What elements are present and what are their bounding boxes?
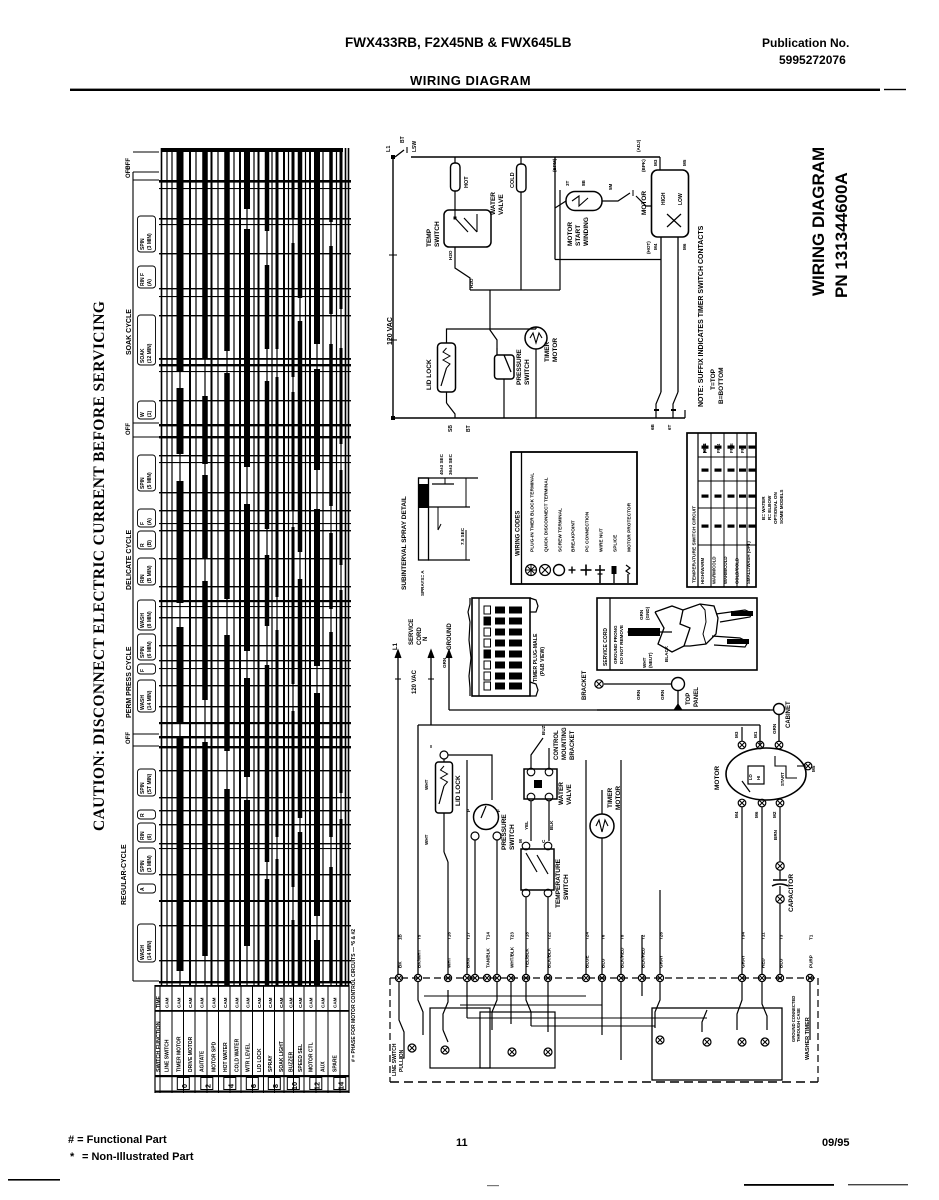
svg-text:BT: BT bbox=[466, 425, 472, 432]
svg-text:BRN: BRN bbox=[466, 957, 471, 968]
svg-text:CONTROL: CONTROL bbox=[554, 730, 560, 760]
schematic 1: start winding leads bbox=[555, 201, 566, 208]
svg-text:BLK: BLK bbox=[549, 820, 554, 830]
schematic 2: long feed rails bbox=[585, 760, 587, 974]
svg-text:SPEED SEL: SPEED SEL bbox=[298, 1044, 304, 1072]
svg-text:T6: T6 bbox=[601, 934, 606, 940]
svg-text:W: W bbox=[140, 412, 146, 417]
svg-text:T26: T26 bbox=[659, 932, 664, 940]
svg-text:COLD/COLD: COLD/COLD bbox=[735, 558, 740, 584]
svg-text:CAM: CAM bbox=[279, 997, 284, 1008]
svg-text:(HOT): (HOT) bbox=[646, 241, 651, 254]
svg-text:LSW: LSW bbox=[412, 141, 418, 152]
schematic 1: lid lock box bbox=[438, 343, 456, 392]
plug detail box frame bbox=[597, 598, 757, 670]
svg-text:CAM: CAM bbox=[223, 997, 228, 1008]
schematic 2: washer timer dashed box sides/bottom bbox=[389, 978, 391, 1082]
svg-text:LID LOCK: LID LOCK bbox=[426, 359, 433, 390]
svg-text:R= ELBOW: R= ELBOW bbox=[767, 495, 772, 520]
svg-text:WHT: WHT bbox=[447, 957, 452, 968]
spray detail bar bbox=[419, 478, 429, 560]
svg-text:WINDING: WINDING bbox=[583, 217, 590, 246]
svg-text:HI: HI bbox=[756, 776, 761, 780]
svg-text:WTR LEVEL: WTR LEVEL bbox=[246, 1043, 252, 1072]
svg-text:T14: T14 bbox=[486, 932, 491, 940]
svg-text:PRESSURE: PRESSURE bbox=[501, 814, 508, 850]
svg-text:(B): (B) bbox=[147, 540, 153, 547]
svg-text:M3: M3 bbox=[734, 731, 739, 738]
svg-text:(BPK): (BPK) bbox=[641, 159, 646, 172]
service cord L1 arrow bbox=[397, 652, 399, 745]
svg-text:T1: T1 bbox=[809, 934, 814, 940]
schematic 2: motor ellipse bbox=[726, 748, 806, 800]
chassis ground bus bbox=[597, 709, 770, 711]
schematic 2: motor top terminals bbox=[738, 741, 746, 749]
svg-text:LO: LO bbox=[748, 773, 753, 780]
svg-text:= Non-Illustrated Part: = Non-Illustrated Part bbox=[82, 1151, 194, 1163]
svg-text:TEMPERATURE: TEMPERATURE bbox=[555, 858, 562, 908]
svg-text:M1: M1 bbox=[753, 731, 758, 738]
title underline rule bbox=[70, 89, 880, 91]
svg-text:(A): (A) bbox=[147, 279, 153, 286]
svg-text:CAM: CAM bbox=[268, 997, 273, 1008]
svg-text:SPARE: SPARE bbox=[333, 1054, 339, 1072]
svg-text:SOAK LIGHT: SOAK LIGHT bbox=[279, 1041, 285, 1072]
svg-text:GRAY: GRAY bbox=[741, 955, 746, 968]
svg-text:L1: L1 bbox=[386, 146, 392, 152]
scan artifacts bottom bbox=[8, 1179, 60, 1181]
svg-text:SPIN: SPIN bbox=[140, 860, 146, 872]
svg-text:120 VAC: 120 VAC bbox=[387, 317, 394, 345]
svg-text:CAM: CAM bbox=[177, 997, 182, 1008]
svg-text:(B MIN): (B MIN) bbox=[147, 565, 153, 583]
svg-text:START: START bbox=[575, 225, 582, 246]
svg-text:F: F bbox=[140, 669, 146, 672]
svg-text:T2: T2 bbox=[641, 934, 646, 940]
svg-text:AGITATE: AGITATE bbox=[200, 1050, 206, 1072]
timer chart top border bbox=[161, 148, 343, 152]
svg-text:# = Functional Part: # = Functional Part bbox=[68, 1134, 167, 1146]
svg-text:R: R bbox=[140, 813, 146, 817]
svg-text:PANEL: PANEL bbox=[694, 687, 700, 707]
svg-text:WATER: WATER bbox=[490, 192, 497, 215]
svg-text:OFF: OFF bbox=[126, 732, 132, 744]
svg-text:SPIN: SPIN bbox=[140, 782, 146, 794]
svg-text:WATER: WATER bbox=[558, 782, 565, 805]
svg-text:SWITCH: SWITCH bbox=[509, 824, 516, 850]
schematic 1: lid lock bottom wire with switch bbox=[446, 392, 448, 403]
schematic 2: water valve block bbox=[524, 769, 557, 799]
svg-text:MOTOR: MOTOR bbox=[641, 191, 648, 215]
svg-text:SERVICE: SERVICE bbox=[409, 619, 415, 645]
timer plug male connector body bbox=[468, 598, 471, 696]
svg-text:PC CONNECTION: PC CONNECTION bbox=[585, 511, 591, 552]
svg-text:M3: M3 bbox=[653, 159, 658, 166]
svg-text:BT: BT bbox=[400, 136, 406, 143]
svg-text:CAUTION: DISCONNECT ELECTRIC: CAUTION: DISCONNECT ELECTRIC CURRENT BEF… bbox=[91, 301, 108, 831]
svg-text:DELICATE CYCLE: DELICATE CYCLE bbox=[126, 530, 133, 590]
svg-text:M: M bbox=[518, 839, 523, 843]
chart bottom band: interval row bbox=[155, 985, 349, 987]
top panel down wire to chassis bus bbox=[677, 690, 679, 710]
svg-text:TIMER MOTOR: TIMER MOTOR bbox=[177, 1036, 183, 1072]
svg-text:PERM PRESS CYCLE: PERM PRESS CYCLE bbox=[126, 646, 133, 718]
svg-text:40±3 SEC: 40±3 SEC bbox=[439, 453, 444, 475]
svg-text:VALVE: VALVE bbox=[498, 194, 505, 215]
schematic 1: wires below temp switch bbox=[454, 247, 456, 262]
svg-text:BRN: BRN bbox=[773, 829, 778, 840]
svg-text:RIN: RIN bbox=[140, 831, 146, 840]
schematic 2: upper frame lines bbox=[418, 724, 760, 726]
svg-text:CAM: CAM bbox=[289, 997, 294, 1008]
svg-text:B=BOTTOM: B=BOTTOM bbox=[718, 367, 725, 404]
svg-text:6T: 6T bbox=[667, 424, 672, 430]
svg-text:CORD: CORD bbox=[417, 627, 423, 645]
svg-text:WHT: WHT bbox=[642, 657, 647, 668]
svg-text:YEL: YEL bbox=[524, 821, 529, 830]
svg-text:T8: T8 bbox=[620, 934, 625, 940]
svg-text:OPTIONAL ON: OPTIONAL ON bbox=[773, 492, 778, 525]
schematic 1: bottom bus bbox=[393, 417, 685, 419]
svg-text:MOTOR CTL: MOTOR CTL bbox=[309, 1042, 315, 1072]
svg-text:WHT/BLK: WHT/BLK bbox=[510, 946, 515, 968]
schematic 2: bus terminals with labels bbox=[395, 974, 402, 981]
washer timer: internal switch group 1 bbox=[430, 1008, 490, 1068]
svg-text:0: 0 bbox=[180, 1084, 189, 1088]
svg-text:L1: L1 bbox=[393, 642, 399, 650]
wiring codes box frame bbox=[511, 452, 637, 584]
svg-text:GRN: GRN bbox=[772, 723, 777, 734]
svg-text:SPIN: SPIN bbox=[140, 646, 146, 658]
svg-text:FWX433RB, F2X45NB & FWX645LB: FWX433RB, F2X45NB & FWX645LB bbox=[345, 35, 572, 50]
schematic 2: temp switch drops bbox=[525, 897, 527, 974]
svg-text:(8 MIN): (8 MIN) bbox=[147, 611, 153, 628]
svg-text:CAM: CAM bbox=[333, 997, 338, 1008]
svg-text:M6: M6 bbox=[682, 243, 687, 250]
svg-text:MOUNTING: MOUNTING bbox=[562, 727, 568, 760]
svg-text:GRN: GRN bbox=[442, 657, 447, 668]
svg-text:BK/WHT: BK/WHT bbox=[417, 949, 422, 968]
schematic 2: terminal bus row (timer box top, dash) bbox=[390, 977, 818, 979]
svg-text:TIMER PLUG-MALE: TIMER PLUG-MALE bbox=[533, 633, 539, 682]
svg-text:START: START bbox=[780, 772, 785, 786]
svg-text:BLK/BLK: BLK/BLK bbox=[547, 947, 552, 968]
svg-text:BRACKET: BRACKET bbox=[570, 730, 576, 760]
svg-text:WASH: WASH bbox=[140, 695, 146, 710]
svg-text:(BPM): (BPM) bbox=[552, 158, 557, 172]
schematic 1: wire joint to pressure switch bbox=[490, 290, 497, 355]
svg-text:(14 MIN): (14 MIN) bbox=[147, 690, 153, 710]
schematic 2: lid lock top wire to pressure switch bbox=[448, 755, 492, 800]
svg-text:SWITCH: SWITCH bbox=[434, 221, 441, 247]
svg-text:N: N bbox=[423, 637, 429, 641]
svg-text:GRN: GRN bbox=[636, 689, 641, 700]
svg-text:WIRE NUT: WIRE NUT bbox=[599, 528, 605, 552]
schematic 1: lid lock top wire bbox=[447, 329, 537, 343]
svg-text:5M: 5M bbox=[608, 183, 613, 190]
svg-text:36±3 SEC: 36±3 SEC bbox=[448, 453, 453, 475]
svg-text:M4: M4 bbox=[653, 243, 658, 250]
svg-text:GROUND: GROUND bbox=[447, 623, 453, 650]
schematic 1: temp switch box bbox=[444, 210, 491, 247]
washer timer: right switch group bbox=[652, 1008, 782, 1080]
schematic 1: motor start winding oval bbox=[566, 192, 602, 211]
svg-text:SPRAY: SPRAY bbox=[268, 1055, 274, 1072]
svg-text:PURP: PURP bbox=[809, 955, 814, 968]
svg-text:R: R bbox=[140, 543, 146, 547]
svg-text:T24: T24 bbox=[585, 932, 590, 940]
svg-text:HIGH/WARM: HIGH/WARM bbox=[700, 558, 705, 584]
svg-text:SOAK: SOAK bbox=[140, 348, 146, 363]
washer timer: internal routing lines bbox=[424, 995, 586, 997]
schematic 2: timer motor circle bbox=[590, 814, 614, 838]
svg-text:BLK/RED: BLK/RED bbox=[620, 947, 625, 968]
svg-text:TIMER: TIMER bbox=[607, 787, 614, 808]
svg-text:T11: T11 bbox=[761, 932, 766, 940]
timer plug pin grid bbox=[484, 606, 491, 614]
svg-text:5995272076: 5995272076 bbox=[779, 53, 846, 67]
timer increment numbers (rotated) bbox=[177, 1078, 189, 1090]
schematic 2: N drop wire bbox=[430, 725, 432, 760]
svg-text:WASH: WASH bbox=[140, 945, 146, 960]
svg-text:H2O: H2O bbox=[469, 278, 474, 288]
svg-text:1B: 1B bbox=[398, 933, 403, 940]
svg-text:SERVICE CORD: SERVICE CORD bbox=[603, 628, 609, 666]
svg-text:OFF: OFF bbox=[126, 423, 132, 435]
svg-text:MOTOR PROTECTOR: MOTOR PROTECTOR bbox=[627, 502, 633, 552]
svg-text:MOTOR SPD: MOTOR SPD bbox=[212, 1041, 218, 1072]
svg-text:LINE SWITCH: LINE SWITCH bbox=[165, 1039, 171, 1072]
schematic 1: temp switch contacts bbox=[454, 210, 456, 218]
svg-text:TEMP: TEMP bbox=[426, 228, 433, 247]
svg-text:WASHER TIMER: WASHER TIMER bbox=[805, 1017, 811, 1060]
washer timer: line switch block bbox=[399, 982, 404, 1058]
svg-text:12: 12 bbox=[313, 1082, 322, 1090]
svg-text:LINE SWITCH: LINE SWITCH bbox=[392, 1043, 398, 1076]
svg-text:F: F bbox=[496, 809, 501, 812]
svg-text:SOAK CYCLE: SOAK CYCLE bbox=[126, 309, 133, 355]
svg-text:(3 MIN): (3 MIN) bbox=[147, 855, 153, 872]
svg-text:PRESSURE: PRESSURE bbox=[516, 349, 523, 385]
svg-text:BUZ: BUZ bbox=[541, 725, 546, 735]
svg-text:WIRING DIAGRAM: WIRING DIAGRAM bbox=[809, 147, 828, 296]
schematic 1: motor box bbox=[652, 170, 689, 237]
svg-text:THROUGH CASE: THROUGH CASE bbox=[796, 1008, 801, 1042]
svg-text:CAM: CAM bbox=[257, 997, 262, 1008]
schematic 1: cold water valve coil bbox=[517, 164, 527, 192]
service cord N arrow bbox=[430, 652, 432, 725]
svg-text:11: 11 bbox=[456, 1137, 468, 1149]
svg-text:8B: 8B bbox=[581, 179, 586, 186]
svg-text:CAM: CAM bbox=[235, 997, 240, 1008]
svg-text:SPRAYS= A: SPRAYS= A bbox=[420, 570, 425, 596]
svg-text:GRN: GRN bbox=[639, 609, 644, 620]
svg-text:CAM: CAM bbox=[165, 997, 170, 1008]
svg-text:BLU: BLU bbox=[601, 958, 606, 968]
svg-text:BLUE: BLUE bbox=[585, 955, 590, 968]
timer chart vertical bar pattern bbox=[161, 148, 163, 985]
svg-text:(14 MIN): (14 MIN) bbox=[147, 940, 153, 960]
svg-text:M5: M5 bbox=[682, 159, 687, 166]
table column lines bbox=[710, 433, 712, 587]
svg-text:AUX: AUX bbox=[321, 1061, 327, 1072]
svg-text:CAM: CAM bbox=[321, 997, 326, 1008]
svg-text:BK: BK bbox=[398, 961, 403, 968]
svg-text:T3: T3 bbox=[779, 934, 784, 940]
plug detail arrow line bbox=[628, 631, 672, 633]
svg-text:MOTOR: MOTOR bbox=[567, 222, 574, 246]
svg-text:BUZZER: BUZZER bbox=[289, 1051, 295, 1072]
cabinet terminal bbox=[774, 704, 785, 715]
schematic 2: motor wires down bbox=[741, 807, 743, 974]
schematic 1: motor internal cross bbox=[667, 214, 681, 227]
timer chart horizontal grid lines bbox=[159, 180, 351, 183]
svg-text:COLD: COLD bbox=[510, 172, 516, 188]
svg-text:(5 MIN): (5 MIN) bbox=[147, 472, 153, 489]
svg-text:MOTOR: MOTOR bbox=[714, 766, 721, 790]
plug cord shading bbox=[628, 628, 660, 636]
svg-text:SCREW TERMINAL: SCREW TERMINAL bbox=[558, 508, 564, 552]
svg-text:PULL-ON: PULL-ON bbox=[399, 1049, 405, 1072]
svg-text:(6 MIN): (6 MIN) bbox=[147, 641, 153, 658]
svg-text:HOT WATER: HOT WATER bbox=[223, 1042, 229, 1072]
svg-text:SWITCH FUNCTION: SWITCH FUNCTION bbox=[156, 1021, 162, 1072]
washer timer: long cross lines bbox=[467, 1017, 707, 1019]
svg-text:CAPACITOR: CAPACITOR bbox=[788, 874, 795, 912]
schematic 2: left L1 drop wire bbox=[397, 745, 399, 974]
svg-text:BREAKPOINT: BREAKPOINT bbox=[571, 520, 577, 552]
svg-text:(NEUT): (NEUT) bbox=[648, 652, 653, 668]
svg-text:GRAY: GRAY bbox=[659, 955, 664, 968]
svg-text:CAM: CAM bbox=[212, 997, 217, 1008]
svg-text:CAM: CAM bbox=[188, 997, 193, 1008]
svg-text:CAM: CAM bbox=[309, 997, 314, 1008]
svg-text:SOME MODELS: SOME MODELS bbox=[779, 490, 784, 524]
svg-text:T=TOP: T=TOP bbox=[710, 368, 717, 390]
svg-text:T34: T34 bbox=[741, 932, 746, 940]
svg-text:SB: SB bbox=[448, 425, 454, 432]
svg-text:8: 8 bbox=[271, 1084, 280, 1088]
svg-text:CAM: CAM bbox=[200, 997, 205, 1008]
svg-text:10: 10 bbox=[290, 1082, 299, 1090]
svg-text:CABINET: CABINET bbox=[786, 701, 792, 728]
cycle step boxes (rotated small) bbox=[138, 216, 156, 252]
svg-text:WIRING CODES: WIRING CODES bbox=[516, 511, 522, 556]
svg-text:(3 MIN): (3 MIN) bbox=[147, 233, 153, 250]
svg-text:M4: M4 bbox=[734, 811, 739, 818]
schematic 1: start winding branch rail bbox=[554, 157, 556, 260]
schematic 2: water valve drops bbox=[530, 801, 532, 841]
svg-text:BLK/RED: BLK/RED bbox=[641, 947, 646, 968]
chart bottom vertical cell dividers bbox=[159, 985, 161, 1093]
svg-text:CAM: CAM bbox=[298, 997, 303, 1008]
schematic 1: hot water valve coil bbox=[451, 163, 461, 191]
svg-text:A: A bbox=[140, 887, 146, 891]
svg-text:PN 131344600A: PN 131344600A bbox=[832, 172, 851, 298]
schematic 2: motor inner contacts bbox=[748, 766, 764, 784]
svg-text:# = PHASE FOR MOTOR CONTROL CI: # = PHASE FOR MOTOR CONTROL CIRCUITS — *… bbox=[351, 929, 357, 1062]
svg-text:WASH: WASH bbox=[140, 613, 146, 628]
schematic 1: motor speed wires down with switches bbox=[660, 237, 662, 392]
schematic 2: water valve buzzer wire bbox=[531, 738, 543, 768]
svg-text:SWITCH: SWITCH bbox=[524, 359, 531, 385]
svg-text:DO NOT REMOVE: DO NOT REMOVE bbox=[619, 625, 624, 664]
svg-text:Publication No.: Publication No. bbox=[762, 36, 849, 50]
svg-text:WHT: WHT bbox=[424, 834, 429, 845]
svg-text:VALVE: VALVE bbox=[566, 784, 573, 805]
cycle label band bracket line bbox=[132, 172, 134, 981]
schematic 1: timer motor circle bbox=[525, 327, 547, 349]
schematic 2: temperature switch block bbox=[521, 849, 554, 890]
svg-text:WARM/COLD: WARM/COLD bbox=[723, 556, 728, 584]
svg-text:TIME: TIME bbox=[156, 995, 162, 1008]
svg-text:09/95: 09/95 bbox=[822, 1137, 850, 1149]
schematic 2: pressure switch cluster bbox=[474, 805, 499, 830]
svg-text:6B: 6B bbox=[650, 423, 655, 430]
svg-text:DRIVE MOTOR: DRIVE MOTOR bbox=[188, 1036, 194, 1072]
svg-text:BRACKET: BRACKET bbox=[582, 670, 588, 700]
svg-text:NOTE: SUFFIX INDICATES TIME: NOTE: SUFFIX INDICATES TIMER SWITCH CONT… bbox=[698, 225, 705, 407]
table row lines bbox=[698, 456, 756, 458]
svg-text:TAN/BLK: TAN/BLK bbox=[486, 948, 491, 968]
schematic 2: second frame line bbox=[430, 745, 432, 748]
svg-text:(ST MIN): (ST MIN) bbox=[147, 773, 153, 794]
svg-text:TIMER: TIMER bbox=[544, 341, 551, 362]
svg-text:T5: T5 bbox=[417, 934, 422, 940]
svg-text:T18: T18 bbox=[525, 932, 530, 940]
svg-text:14: 14 bbox=[337, 1081, 346, 1090]
svg-text:B= WATER: B= WATER bbox=[761, 496, 766, 520]
svg-text:GRN: GRN bbox=[660, 689, 665, 700]
svg-text:F: F bbox=[140, 522, 146, 525]
svg-text:CAM: CAM bbox=[246, 997, 251, 1008]
table header strip bbox=[697, 433, 699, 587]
schematic 1: top supply bus bbox=[411, 156, 660, 158]
schematic 1: L1 terminal bbox=[391, 155, 395, 159]
svg-text:COLD WATER: COLD WATER bbox=[235, 1038, 241, 1072]
schematic 1: line switch at top bbox=[395, 150, 404, 157]
washer timer: internal switch group 2 bbox=[492, 982, 497, 1030]
schematic 1: mid vertical feed wire bbox=[559, 190, 561, 290]
svg-text:(1): (1) bbox=[147, 411, 153, 417]
svg-text:SWITCH: SWITCH bbox=[563, 874, 570, 900]
svg-text:QUICK DISCONNECT TERMINAL: QUICK DISCONNECT TERMINAL bbox=[544, 477, 550, 552]
svg-text:SMALL/WASH (OPT): SMALL/WASH (OPT) bbox=[746, 541, 751, 584]
schematic 2: lid lock branch bbox=[440, 751, 448, 759]
schematic 2: motor right terminal bbox=[804, 762, 812, 770]
svg-text:2: 2 bbox=[204, 1084, 213, 1088]
svg-text:HOT: HOT bbox=[464, 176, 470, 188]
svg-text:7.5 SEC: 7.5 SEC bbox=[460, 527, 465, 545]
svg-text:(A): (A) bbox=[147, 518, 153, 525]
schematic 1: left 120VAC bus bbox=[392, 157, 394, 418]
svg-text:(GND): (GND) bbox=[645, 606, 650, 620]
svg-text:MOTOR: MOTOR bbox=[552, 338, 559, 362]
schematic 2: extra drop from pressure area bbox=[466, 760, 468, 974]
svg-text:SUBINTERVAL SPRAY DETAIL: SUBINTERVAL SPRAY DETAIL bbox=[401, 496, 408, 590]
schematic 2: motor top wires bbox=[741, 727, 743, 741]
table cell dashes bbox=[702, 446, 709, 449]
schematic 2: motor bottom terminals bbox=[738, 799, 746, 807]
svg-text:M6: M6 bbox=[754, 811, 759, 818]
temperature switch circuit table frame bbox=[687, 433, 756, 587]
schematic 1: lid lock resistor + switch bbox=[443, 348, 450, 368]
svg-text:LID LOCK: LID LOCK bbox=[257, 1048, 263, 1072]
svg-text:TOP: TOP bbox=[686, 693, 692, 705]
svg-text:REGULAR-CYCLE: REGULAR-CYCLE bbox=[121, 844, 128, 905]
svg-text:GROUND PRONG: GROUND PRONG bbox=[613, 625, 618, 664]
schematic 1: pressure switch box bbox=[495, 355, 515, 379]
